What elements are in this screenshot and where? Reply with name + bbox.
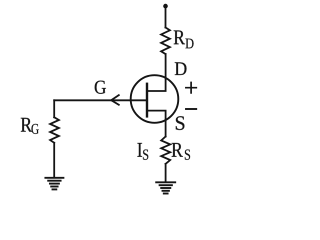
gate arrowhead bbox=[111, 95, 119, 105]
resistor R_G bbox=[50, 117, 59, 143]
label S bbox=[176, 116, 184, 130]
wire corner to RG bbox=[53, 100, 55, 117]
transistor U1 circle bbox=[131, 75, 179, 123]
label G bbox=[95, 81, 106, 94]
ground right bbox=[156, 182, 175, 193]
plus sign bbox=[186, 83, 196, 93]
resistor R_D bbox=[161, 28, 170, 55]
gate wire bbox=[54, 99, 147, 101]
wire RG to ground bbox=[53, 143, 55, 178]
label R_G bbox=[21, 118, 39, 134]
label R_D bbox=[174, 30, 194, 48]
wire VDD to RD bbox=[165, 6, 167, 28]
transistor channel bar bbox=[146, 84, 148, 117]
label D bbox=[175, 62, 187, 75]
ground left bbox=[45, 178, 63, 190]
node VDD dot bbox=[163, 4, 168, 9]
label I_S bbox=[137, 143, 148, 160]
resistor R_S bbox=[161, 137, 170, 164]
label R_S bbox=[172, 143, 190, 160]
minus sign bbox=[186, 108, 196, 110]
wire RS to ground bbox=[165, 164, 167, 182]
source lead bbox=[147, 111, 166, 137]
wire RD to drain bbox=[147, 54, 166, 91]
